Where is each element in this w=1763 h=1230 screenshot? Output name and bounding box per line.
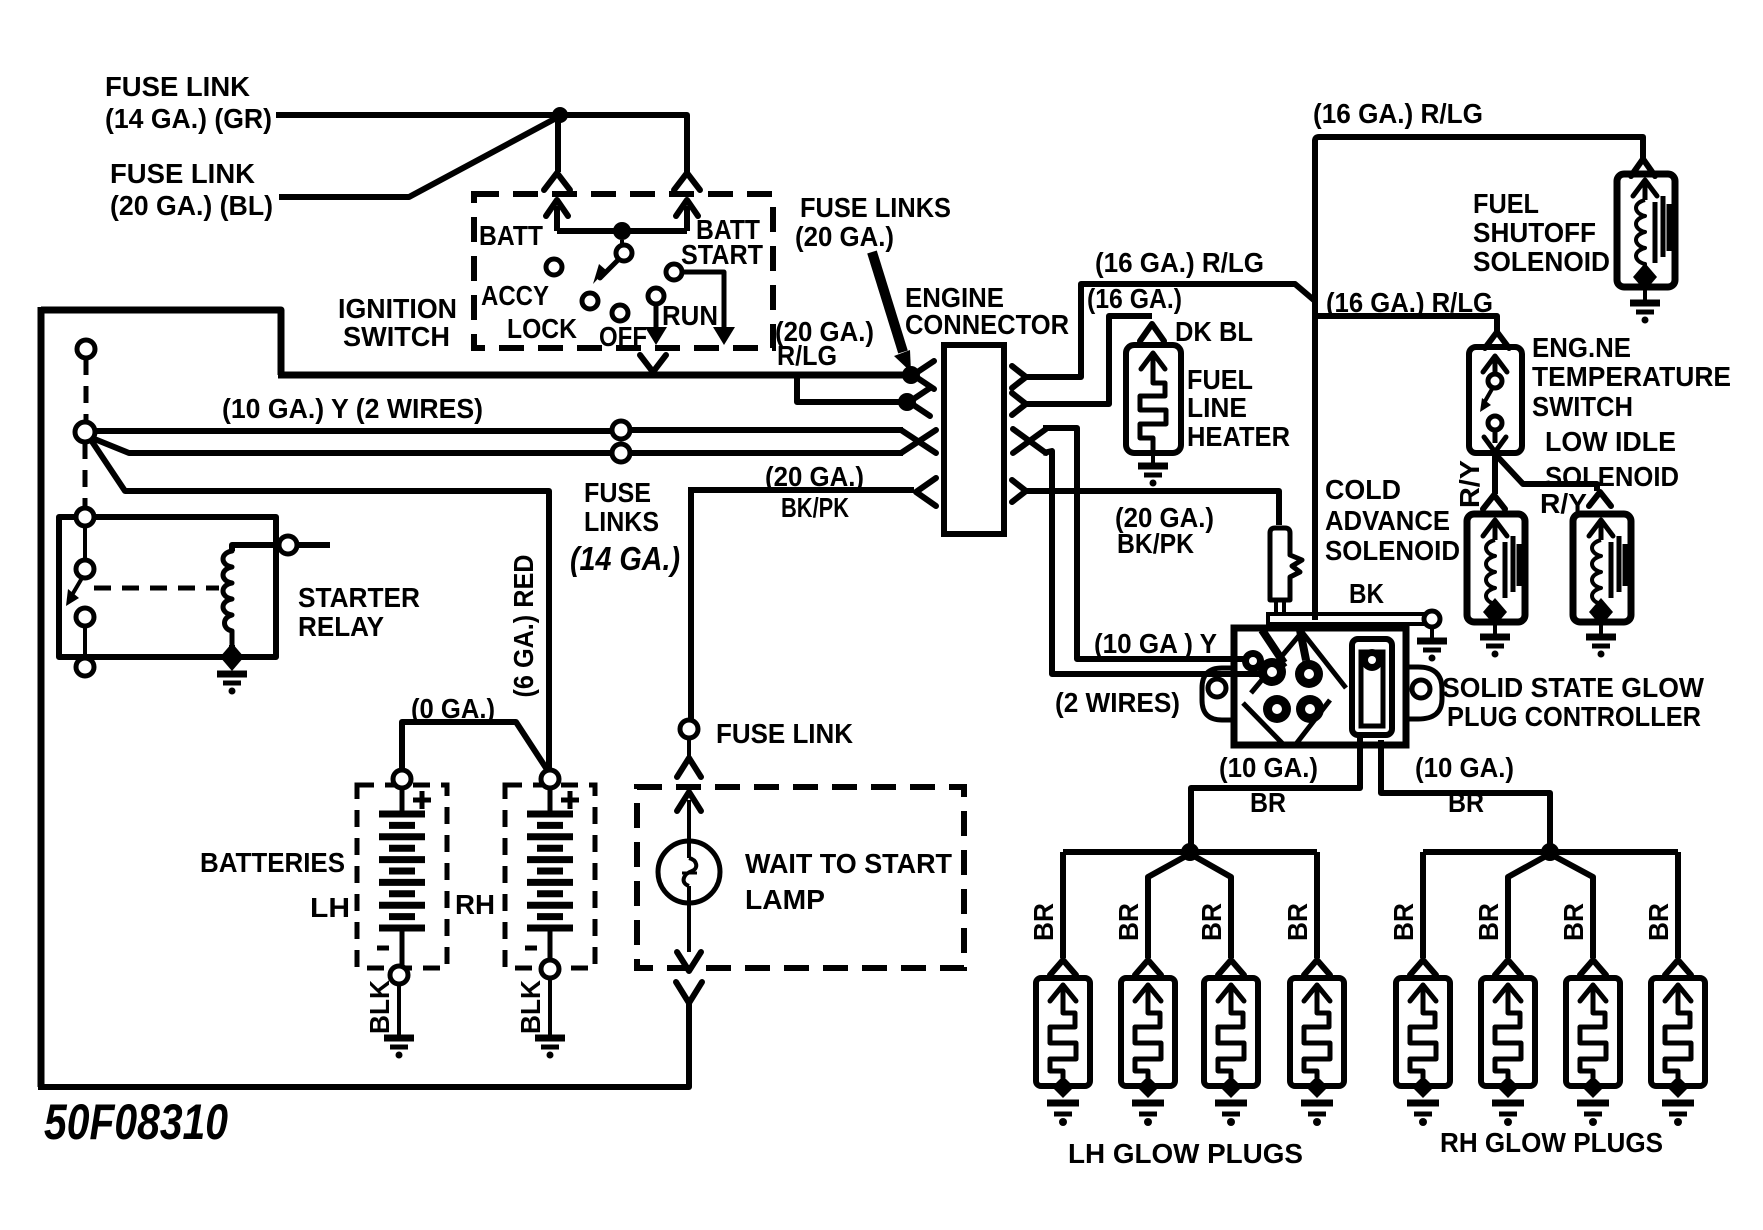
wire low idle to ground — [1599, 622, 1603, 634]
wire lamp down — [687, 903, 691, 952]
engine connector body — [944, 345, 1004, 534]
controller terminal 1 — [1258, 658, 1286, 686]
relay actuation dashed wire — [94, 586, 219, 591]
node LH bus junction dot — [1181, 843, 1199, 861]
fuel shutoff solenoid bottom junction — [1633, 263, 1657, 291]
wire into lamp — [687, 800, 691, 843]
wire cold advance to ground — [1493, 622, 1497, 634]
svg-text:50F08310: 50F08310 — [44, 1094, 228, 1150]
rotor arm arrow — [593, 260, 618, 284]
contact LOCK — [582, 293, 598, 309]
svg-text:(16 GA.) R/LG: (16 GA.) R/LG — [1095, 247, 1264, 278]
glow plug LH2 element arrow — [1135, 985, 1161, 1008]
svg-text:(20 GA.): (20 GA.) — [795, 221, 894, 252]
glow plug RH3 body — [1566, 978, 1620, 1086]
glow plug RH2 connector chevron — [1495, 960, 1521, 975]
cold advance feed chevron — [1483, 495, 1505, 509]
arrow BATT terminal — [546, 200, 568, 231]
wire 0GA jumper — [402, 722, 548, 771]
label LOW IDLE SOLENOID — [1545, 426, 1679, 492]
temp switch feed chevron — [1485, 332, 1509, 348]
label (10 GA.) BR right — [1415, 752, 1514, 818]
glow plug RH2 body — [1481, 978, 1535, 1086]
glow plug RH1 element arrow — [1410, 985, 1436, 1008]
glow plug RH4 bottom junction — [1667, 1076, 1689, 1098]
glow plug LH2 body — [1121, 978, 1175, 1086]
wire 16GA R/LG top run — [1315, 137, 1643, 158]
wire fuse link BL diagonal to junction — [279, 116, 560, 197]
relay coil — [223, 545, 232, 645]
svg-text:SWITCH: SWITCH — [343, 321, 450, 352]
svg-text:RELAY: RELAY — [298, 611, 384, 642]
controller terminal 2 — [1295, 660, 1323, 688]
svg-text:LH GLOW PLUGS: LH GLOW PLUGS — [1068, 1138, 1303, 1169]
wire shutoff to ground — [1643, 287, 1647, 300]
glow plug RH4 ground — [1662, 1103, 1694, 1126]
svg-text:BR: BR — [1448, 787, 1484, 818]
svg-text:BLK: BLK — [515, 980, 546, 1034]
svg-text:(20 GA.): (20 GA.) — [765, 461, 864, 492]
glow plug RH2 bottom junction — [1497, 1076, 1519, 1098]
controller left ear — [1202, 668, 1234, 720]
node junction J1 — [75, 422, 95, 442]
svg-text:FUEL: FUEL — [1187, 364, 1253, 395]
temp switch contact lower — [1488, 416, 1502, 430]
fuel shutoff solenoid coil — [1636, 200, 1645, 275]
svg-text:(10 GA.) Y (2 WIRES): (10 GA.) Y (2 WIRES) — [222, 393, 483, 424]
battery RH terminal stems — [548, 777, 553, 973]
wire 10GA Y second — [92, 438, 612, 453]
BK bus bar — [1268, 614, 1426, 624]
wait to start lamp dashed box — [637, 787, 964, 968]
label (20 GA.) R/LG — [775, 316, 874, 371]
svg-text:R/LG: R/LG — [777, 340, 837, 371]
ground BK — [1417, 641, 1447, 662]
svg-text:(10 GA ) Y: (10 GA ) Y — [1094, 628, 1217, 659]
svg-text:(20 GA.) (BL): (20 GA.) (BL) — [110, 190, 273, 221]
wire RH bus — [1423, 849, 1678, 855]
battery LH terminal stems — [400, 777, 405, 973]
glow plug LH3 connector chevron — [1218, 960, 1244, 975]
wire lamp to bottom bus — [38, 1003, 689, 1087]
wire junction down to ignition BATT — [555, 115, 561, 172]
wire 16GA to fuel line heater — [1026, 316, 1152, 404]
fuel shutoff solenoid body — [1617, 174, 1675, 287]
svg-text:BR: BR — [1250, 787, 1286, 818]
battery RH dashed box — [505, 785, 595, 968]
svg-text:SOLID STATE GLOW: SOLID STATE GLOW — [1442, 672, 1705, 703]
wire fuse link GR to junction — [276, 112, 556, 118]
node fuse link circle — [680, 720, 698, 738]
glow plug RH2 ground — [1492, 1103, 1524, 1126]
glow plug LH4 bottom junction — [1306, 1076, 1328, 1098]
node relay terminal bottom — [76, 658, 94, 676]
relay blade arrow — [66, 578, 82, 606]
label ENGINE CONNECTOR — [905, 282, 1069, 340]
glow plug RH3 connector chevron — [1580, 960, 1606, 975]
wire junction right to BATT START — [560, 115, 687, 172]
label ENG.NE TEMPERATURE SWITCH — [1532, 332, 1731, 422]
svg-text:LOW IDLE: LOW IDLE — [1545, 426, 1676, 457]
svg-text:FUEL: FUEL — [1473, 188, 1539, 219]
svg-text:BLK: BLK — [364, 980, 395, 1034]
svg-text:(2 WIRES): (2 WIRES) — [1055, 687, 1180, 718]
cold advance solenoid core bars — [1505, 536, 1519, 598]
wire RH plug4 drop — [1675, 852, 1681, 958]
svg-text:LOCK: LOCK — [507, 313, 577, 344]
controller right ear — [1406, 667, 1442, 719]
wire left bus vertical — [38, 307, 45, 1087]
label FUEL SHUTOFF SOLENOID — [1473, 188, 1610, 277]
glow plug LH4 connector chevron — [1304, 960, 1330, 975]
heater element meander — [1140, 378, 1166, 452]
battery RH plates — [527, 814, 573, 928]
glow plug LH4 ground — [1301, 1103, 1333, 1126]
node relay contact A — [76, 560, 94, 578]
contact START — [666, 264, 682, 280]
glow plug LH1 element meander — [1050, 1008, 1076, 1078]
glow plug RH1 element meander — [1410, 1008, 1436, 1078]
wire LH plug3 drop — [1194, 856, 1231, 958]
fuse links pointer arrow — [872, 252, 911, 372]
ground starter relay — [217, 674, 247, 695]
wire fuse links 14GA to battery — [91, 440, 549, 768]
wire controller output right — [1381, 740, 1550, 844]
glow plug LH3 element meander — [1218, 1008, 1244, 1078]
fuel line heater body — [1126, 345, 1181, 453]
pin1 right chevron — [1012, 366, 1026, 388]
low idle solenoid plunger arrow — [1589, 520, 1613, 540]
svg-text:(14 GA.) (GR): (14 GA.) (GR) — [105, 103, 272, 134]
glow plug RH3 ground — [1577, 1103, 1609, 1126]
svg-text:(10 GA.): (10 GA.) — [1219, 752, 1318, 783]
svg-text:RH GLOW PLUGS: RH GLOW PLUGS — [1440, 1127, 1663, 1158]
label (20 GA.) BK/PK right — [1115, 502, 1214, 559]
pin4 right chevron — [1012, 480, 1026, 502]
starter relay box — [59, 517, 276, 657]
wire relay output stub — [297, 542, 330, 548]
svg-text:SWITCH: SWITCH — [1532, 391, 1633, 422]
cold advance cylinder — [1270, 528, 1302, 613]
controller relay cover — [1352, 639, 1392, 735]
junction dot coil ground — [220, 643, 244, 671]
wire temp switch to cold advance — [1492, 453, 1498, 494]
wire R/LG branch to connector pin 2 — [797, 375, 899, 402]
connector chevron above BATT START — [674, 173, 700, 190]
pin3 X crossover left — [901, 430, 936, 453]
wire 10GA Y upper to controller — [1043, 428, 1246, 659]
svg-text:FUSE: FUSE — [584, 477, 651, 508]
wire BK/PK branch down to fuse link — [688, 490, 694, 721]
controller mounting plate diagonals — [1243, 632, 1346, 744]
wire 16GA R/LG to temp switch — [1315, 316, 1497, 331]
svg-text:BR: BR — [1113, 903, 1144, 941]
wire LH bus feed — [1188, 788, 1194, 850]
wire 10GA Y second cont — [630, 450, 903, 456]
wire controller output left — [1191, 735, 1360, 844]
label (10 GA.) BR left — [1219, 752, 1318, 818]
temp switch top arrow — [1483, 356, 1507, 374]
wire BK/PK to advance cylinder — [1026, 491, 1279, 525]
svg-text:BR: BR — [1473, 903, 1504, 941]
ignition switch dashed box — [474, 194, 773, 348]
svg-text:ENG.NE: ENG.NE — [1532, 332, 1631, 363]
glow plug LH1 element arrow — [1050, 985, 1076, 1008]
svg-text:FUSE LINK: FUSE LINK — [105, 71, 250, 102]
glow plug RH3 element arrow — [1580, 985, 1606, 1008]
glow plug LH2 element meander — [1135, 1008, 1161, 1078]
svg-text:CONNECTOR: CONNECTOR — [905, 309, 1069, 340]
wire 16GA R/LG riser — [1026, 284, 1315, 377]
wire LH plug1 drop — [1060, 852, 1066, 958]
svg-text:LINKS: LINKS — [584, 506, 659, 537]
node relay terminal top — [76, 508, 94, 526]
low idle feed chevron — [1589, 492, 1611, 506]
svg-text:WAIT TO START: WAIT TO START — [745, 848, 952, 879]
svg-text:ADVANCE: ADVANCE — [1325, 505, 1450, 536]
glow plug LH2 connector chevron — [1135, 960, 1161, 975]
node BK terminal circle — [1424, 611, 1440, 627]
glow plug LH2 ground — [1132, 1103, 1164, 1126]
svg-text:BATT: BATT — [479, 220, 543, 251]
svg-text:(10 GA.): (10 GA.) — [1415, 752, 1514, 783]
label IGNITION SWITCH — [338, 293, 457, 352]
label FUSE LINK (20 GA.) (BL) — [110, 158, 273, 221]
node battery RH top terminal — [541, 770, 559, 788]
label STARTER RELAY — [298, 582, 420, 642]
svg-text:SOLENOID: SOLENOID — [1325, 535, 1460, 566]
svg-text:FUSE LINK: FUSE LINK — [716, 718, 853, 749]
label BATT START — [681, 214, 763, 270]
glow plug RH4 body — [1651, 978, 1705, 1086]
wire RH plug1 drop — [1420, 852, 1426, 958]
label FUSE LINKS (14 GA.) — [570, 477, 680, 577]
glow plug RH1 connector chevron — [1410, 960, 1436, 975]
pin2 chevron — [909, 388, 930, 416]
node battery LH top terminal — [393, 770, 411, 788]
battery LH minus sign — [377, 946, 389, 951]
svg-text:STARTER: STARTER — [298, 582, 420, 613]
svg-text:BR: BR — [1388, 903, 1419, 941]
svg-text:TEMPERATURE: TEMPERATURE — [1532, 361, 1731, 392]
controller terminal 4 — [1296, 695, 1324, 723]
pin3 X crossover right — [1013, 429, 1046, 453]
glow plug RH4 element meander — [1665, 1008, 1691, 1078]
wire RH plug3 drop — [1554, 856, 1593, 958]
wire LH plug2 drop — [1148, 856, 1186, 958]
svg-text:SOLENOID: SOLENOID — [1545, 461, 1679, 492]
svg-text:BR: BR — [1282, 903, 1313, 941]
glow plug RH1 body — [1396, 978, 1450, 1086]
connector chevron RUN below box — [640, 355, 666, 372]
temp switch bottom arrow — [1484, 430, 1506, 452]
ground battery LH — [384, 1038, 414, 1059]
junction dot on BATT bar — [613, 222, 631, 240]
wire BK to ground — [1430, 627, 1434, 638]
svg-text:SOLENOID: SOLENOID — [1473, 246, 1610, 277]
temp switch contact upper — [1488, 374, 1502, 388]
glow plug LH3 ground — [1215, 1103, 1247, 1126]
node connector pin1 dot — [902, 366, 920, 384]
wire coil to output circle — [232, 545, 279, 551]
glow plug LH4 element arrow — [1304, 985, 1330, 1008]
svg-text:(6 GA.) RED: (6 GA.) RED — [508, 555, 539, 698]
node relay output circle — [279, 536, 297, 554]
node RH bus junction dot — [1541, 843, 1559, 861]
engine temperature switch body — [1469, 347, 1522, 453]
glow plug RH3 bottom junction — [1582, 1076, 1604, 1098]
label WAIT TO START LAMP — [745, 848, 952, 915]
svg-text:LINE: LINE — [1187, 392, 1247, 423]
pin1 chevron — [913, 361, 934, 389]
wire left bus top — [41, 310, 281, 375]
glow plug LH2 bottom junction — [1137, 1076, 1159, 1098]
wire 16GA R/LG main vertical — [1312, 140, 1318, 620]
wire 10GA Y first cont — [630, 427, 903, 433]
battery RH plus sign — [561, 791, 579, 809]
svg-text:(0 GA.): (0 GA.) — [411, 693, 495, 724]
glow plug LH3 bottom junction — [1220, 1076, 1242, 1098]
low idle solenoid body — [1573, 514, 1631, 622]
glow plug LH1 connector chevron — [1050, 960, 1076, 975]
glow plug RH2 element meander — [1495, 1008, 1521, 1078]
svg-text:DK BL: DK BL — [1175, 316, 1253, 347]
cold advance solenoid plunger arrow — [1483, 520, 1507, 540]
wire RH plug2 drop — [1508, 856, 1546, 958]
svg-text:R/Y: R/Y — [1454, 460, 1485, 508]
glow plug RH1 bottom junction — [1412, 1076, 1434, 1098]
node bullet Y2 — [612, 444, 630, 462]
heater feed chevron — [1140, 324, 1164, 341]
contact ACCY — [546, 259, 562, 275]
node bullet Y1 — [612, 421, 630, 439]
glow plug RH4 connector chevron — [1665, 960, 1691, 975]
wire BK/PK to connector — [688, 487, 914, 493]
pin4 chevron — [916, 478, 936, 506]
label FUEL LINE HEATER — [1187, 364, 1290, 452]
fuel shutoff solenoid plunger arrow — [1633, 180, 1657, 200]
contact OFF — [612, 305, 628, 321]
ground fuel shutoff — [1630, 303, 1660, 324]
controller body — [1234, 628, 1406, 745]
temp switch blade — [1480, 389, 1492, 412]
label FUSE LINKS (20 GA.) — [795, 192, 951, 252]
heater element arrow — [1141, 353, 1165, 378]
wire 2 wires lower to controller — [1043, 451, 1262, 674]
svg-text:BK: BK — [1349, 578, 1384, 609]
node relay contact B — [76, 608, 94, 626]
glow plug RH3 element meander — [1580, 1008, 1606, 1078]
wire battery RH to ground — [548, 978, 552, 1035]
controller terminal 3 — [1263, 695, 1291, 723]
node connector pin2 dot — [898, 393, 916, 411]
label COLD ADVANCE SOLENOID — [1325, 474, 1460, 566]
connector chevron below lamp box — [676, 982, 702, 1003]
battery LH plates — [379, 814, 425, 928]
wire BATT bar — [557, 228, 687, 234]
ground battery RH — [535, 1038, 565, 1059]
wire relay contact upper — [83, 526, 87, 560]
svg-text:START: START — [681, 239, 763, 270]
wire fuse link to lamp box — [687, 738, 691, 758]
svg-text:(16 GA.): (16 GA.) — [1087, 283, 1182, 314]
connector chevron above lamp box — [677, 758, 701, 777]
svg-text:BR: BR — [1643, 903, 1674, 941]
svg-text:BATTERIES: BATTERIES — [200, 847, 345, 878]
svg-text:SHUTOFF: SHUTOFF — [1473, 217, 1596, 248]
wire 10GA Y first — [95, 428, 612, 434]
svg-text:FUSE LINK: FUSE LINK — [110, 158, 255, 189]
glow plug LH1 body — [1036, 978, 1090, 1086]
wire main R/LG feed — [278, 372, 903, 379]
contact RUN — [648, 288, 664, 304]
wire LH bus — [1063, 849, 1317, 855]
svg-text:(14 GA.): (14 GA.) — [570, 540, 680, 577]
glow plug LH1 ground — [1047, 1103, 1079, 1126]
svg-text:RUN: RUN — [662, 300, 718, 331]
wire relay contact lower — [83, 626, 87, 658]
controller ring terminal — [1242, 650, 1264, 672]
svg-text:LAMP: LAMP — [745, 884, 825, 915]
node battery LH bottom terminal — [390, 966, 408, 984]
wait to start lamp bulb — [658, 841, 720, 903]
cold advance solenoid coil — [1486, 540, 1495, 610]
low idle solenoid core bars — [1611, 536, 1625, 598]
connector chevron above BATT — [544, 173, 570, 190]
svg-text:BR: BR — [1558, 903, 1589, 941]
glow plug RH4 element arrow — [1665, 985, 1691, 1008]
wire battery LH to ground — [397, 984, 401, 1035]
glow plug LH1 bottom junction — [1052, 1076, 1074, 1098]
svg-text:OFF: OFF — [599, 321, 647, 352]
wire coil to ground — [229, 645, 235, 664]
cold advance solenoid bottom junction — [1483, 598, 1507, 626]
rotor contact circle — [616, 240, 632, 261]
shutoff feed chevron — [1631, 159, 1655, 176]
wire START right and down — [682, 272, 735, 345]
junction dot fuse links — [552, 107, 568, 123]
svg-text:(16 GA.) R/LG: (16 GA.) R/LG — [1313, 98, 1483, 129]
wire dashed link upper — [84, 358, 89, 423]
low idle solenoid coil — [1592, 540, 1601, 610]
glow plug RH2 element arrow — [1495, 985, 1521, 1008]
svg-text:BR: BR — [1196, 903, 1227, 941]
svg-text:RH: RH — [455, 889, 495, 920]
glow plug LH3 element arrow — [1218, 985, 1244, 1008]
ground cold advance — [1480, 637, 1510, 658]
svg-text:HEATER: HEATER — [1187, 421, 1290, 452]
label SOLID STATE GLOW PLUG CONTROLLER — [1442, 672, 1705, 732]
connector chevron inside lamp box — [677, 792, 701, 811]
wire temp switch branch to low idle — [1496, 455, 1597, 491]
wire RUN down — [645, 304, 667, 345]
low idle solenoid bottom junction — [1589, 598, 1613, 626]
svg-text:PLUG CONTROLLER: PLUG CONTROLLER — [1447, 701, 1701, 732]
svg-text:COLD: COLD — [1325, 474, 1401, 505]
glow plug LH3 body — [1204, 978, 1258, 1086]
fuel shutoff solenoid core bars — [1655, 196, 1669, 263]
svg-text:BK/PK: BK/PK — [781, 492, 849, 523]
svg-text:IGNITION: IGNITION — [338, 293, 457, 324]
label FUSE LINK (14 GA.) (GR) — [105, 71, 272, 134]
label BATTERIES LH RH — [200, 847, 495, 923]
glow plug LH4 body — [1290, 978, 1344, 1086]
node battery RH bottom terminal — [541, 960, 559, 978]
svg-text:ACCY: ACCY — [481, 280, 549, 311]
ground fuel line heater — [1138, 466, 1168, 487]
pin2 right chevron — [1012, 393, 1026, 415]
arrow BATT START terminal — [676, 200, 698, 231]
